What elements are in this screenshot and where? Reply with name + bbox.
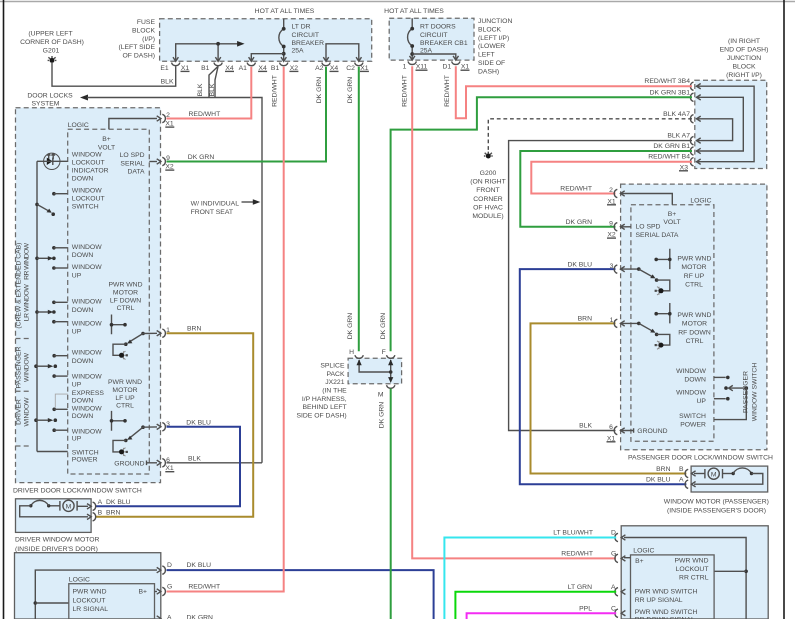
label PWR WND LOCKOUT RR CTRL bbox=[675, 558, 709, 582]
svg-text:A: A bbox=[679, 477, 684, 484]
svg-text:DK GRN: DK GRN bbox=[566, 219, 593, 226]
svg-text:JX221: JX221 bbox=[325, 379, 344, 386]
pin 1 (driver BRN) bbox=[157, 327, 170, 337]
svg-text:RED/WHT: RED/WHT bbox=[444, 75, 451, 107]
wire DK GRN fuse C2 to splice H bbox=[358, 67, 360, 351]
pin 9/X2 (passenger) bbox=[566, 219, 625, 239]
label WINDOW LOCKOUT SWITCH bbox=[72, 188, 105, 211]
svg-text:END OF DASH): END OF DASH) bbox=[720, 47, 769, 54]
motor LF UP pole and blade bbox=[124, 425, 157, 442]
wire BLK G201 to fuse E1 bbox=[52, 63, 176, 86]
pin C (bottom-right PPL) bbox=[579, 605, 625, 617]
svg-text:SIDE OF: SIDE OF bbox=[478, 60, 505, 67]
wire pin2 to B+ VOLT (passenger) bbox=[621, 194, 673, 205]
svg-text:WINDOW: WINDOW bbox=[24, 352, 31, 382]
driver door lock/window switch box bbox=[16, 108, 161, 483]
wire DK GRN B1 to passenger pin 9 bbox=[520, 151, 692, 227]
svg-text:UP: UP bbox=[72, 436, 82, 443]
label PWR WND MOTOR RF DOWN CTRL bbox=[677, 312, 711, 345]
svg-text:DOWN: DOWN bbox=[72, 176, 94, 183]
svg-text:POWER: POWER bbox=[72, 457, 98, 464]
svg-text:PASSENGER: PASSENGER bbox=[743, 371, 750, 413]
svg-text:RED/WHT: RED/WHT bbox=[402, 75, 409, 107]
wire RED/WHT D1/X1 to junction 3B4 bbox=[456, 66, 692, 118]
internal wire pin D to RR ctrl vertical bbox=[624, 538, 748, 619]
svg-text:INDICATOR: INDICATOR bbox=[72, 168, 109, 175]
passenger door lock/window switch box bbox=[621, 184, 767, 450]
svg-text:DK GRN: DK GRN bbox=[316, 77, 323, 104]
pin B1/X2 bbox=[271, 57, 298, 72]
pin G (bottom-right RED/WHT) bbox=[561, 551, 625, 563]
wire PPL pin C bbox=[467, 613, 617, 619]
svg-text:RED/WHT B4: RED/WHT B4 bbox=[648, 154, 690, 161]
svg-text:B1: B1 bbox=[271, 65, 280, 72]
svg-text:LR SIGNAL: LR SIGNAL bbox=[73, 606, 109, 613]
svg-text:I/P HARNESS,: I/P HARNESS, bbox=[302, 396, 347, 403]
wire BLK A7 to passenger pin 6 bbox=[509, 141, 692, 431]
svg-text:DOWN: DOWN bbox=[72, 398, 94, 405]
svg-text:RR UP SIGNAL: RR UP SIGNAL bbox=[635, 597, 683, 604]
svg-text:VOLT: VOLT bbox=[663, 219, 680, 226]
svg-text:MOTOR: MOTOR bbox=[112, 387, 137, 394]
svg-text:BLOCK: BLOCK bbox=[478, 26, 502, 33]
junction block internal U wire red bbox=[696, 86, 754, 162]
svg-text:LOGIC: LOGIC bbox=[690, 198, 711, 205]
divider dash 1 bbox=[16, 338, 32, 340]
wire switch power bbox=[37, 451, 68, 453]
switch group RR window: window up contact bbox=[52, 264, 102, 279]
svg-text:G: G bbox=[611, 551, 616, 558]
svg-text:DRIVER WINDOW MOTOR: DRIVER WINDOW MOTOR bbox=[15, 537, 100, 544]
pin B (driver motor) bbox=[87, 510, 120, 522]
svg-text:RF UP: RF UP bbox=[684, 273, 705, 280]
motor LF DOWN feed bracket + motor terminal bbox=[113, 344, 128, 359]
svg-text:FRONT: FRONT bbox=[476, 187, 499, 194]
pin 9/X2 (driver) bbox=[157, 155, 175, 170]
svg-text:6: 6 bbox=[609, 424, 613, 431]
wire B+ to pin G bbox=[624, 557, 631, 559]
label PWR WND MOTOR LF UP CTRL bbox=[108, 379, 142, 410]
wire LED to pole bbox=[37, 160, 44, 162]
label PWR WND SWITCH RR DOWN SIGNAL bbox=[635, 609, 698, 619]
svg-text:BRN: BRN bbox=[656, 466, 670, 473]
svg-text:A: A bbox=[611, 584, 616, 591]
pin F (splice) bbox=[382, 349, 395, 358]
ground wire + label GROUND (driver) bbox=[114, 460, 157, 467]
G201 ground bbox=[20, 31, 84, 63]
splice pack JX221 box bbox=[348, 358, 402, 384]
svg-text:(I/P): (I/P) bbox=[142, 36, 155, 43]
svg-text:(UPPER LEFT: (UPPER LEFT bbox=[28, 31, 72, 38]
motor RF UP pole and blade bbox=[621, 267, 659, 282]
right border bar bbox=[783, 0, 785, 619]
svg-text:(LEFT I/P): (LEFT I/P) bbox=[478, 35, 509, 42]
label FUSE BLOCK (I/P) (LEFT SIDE OF DASH) bbox=[118, 19, 155, 60]
svg-text:M: M bbox=[378, 391, 384, 398]
svg-text:DOOR LOCKS: DOOR LOCKS bbox=[27, 93, 73, 100]
wire DK GRN junction 3B1 to splice F bbox=[391, 97, 692, 351]
svg-text:W/ INDIVIDUAL: W/ INDIVIDUAL bbox=[191, 200, 240, 207]
pin B (passenger motor) bbox=[656, 466, 695, 478]
label PWR WND LOCKOUT LR SIGNAL bbox=[73, 589, 109, 614]
svg-text:DK BLU: DK BLU bbox=[646, 477, 671, 484]
wire switch pole vertical bbox=[36, 161, 38, 451]
svg-text:PASSENGER: PASSENGER bbox=[16, 346, 23, 388]
svg-text:LOCKOUT: LOCKOUT bbox=[676, 566, 709, 573]
bottom-left module box bbox=[15, 553, 161, 619]
wire motor A side bbox=[77, 505, 88, 507]
svg-text:SERIAL: SERIAL bbox=[120, 160, 144, 167]
pin D (bottom-right LT BLU/WHT) bbox=[553, 530, 625, 542]
svg-text:DOWN: DOWN bbox=[72, 252, 94, 259]
rotated label PASSENGER WINDOW SWITCH bbox=[743, 363, 759, 422]
svg-text:DRIVER DOOR LOCK/WINDOW SWITCH: DRIVER DOOR LOCK/WINDOW SWITCH bbox=[13, 488, 142, 495]
switch group RR window: blade bbox=[35, 256, 56, 260]
svg-text:WINDOW: WINDOW bbox=[24, 397, 31, 427]
svg-text:CTRL: CTRL bbox=[117, 305, 135, 312]
wire DK BLU driver pin3 to motor A bbox=[96, 427, 241, 507]
passenger window motor box bbox=[691, 466, 768, 492]
svg-text:G: G bbox=[167, 584, 172, 591]
svg-text:POWER: POWER bbox=[680, 421, 706, 428]
svg-text:WINDOW: WINDOW bbox=[72, 350, 102, 357]
svg-text:B: B bbox=[98, 510, 103, 517]
label WINDOW UP (passenger) bbox=[676, 390, 706, 405]
svg-text:B+: B+ bbox=[139, 589, 148, 596]
svg-text:DOWN: DOWN bbox=[72, 358, 94, 365]
svg-text:BLOCK: BLOCK bbox=[732, 64, 756, 71]
svg-text:DK BLU: DK BLU bbox=[106, 499, 131, 506]
svg-text:DK GRN 3B1: DK GRN 3B1 bbox=[650, 89, 691, 96]
switch group passenger: window down contact bbox=[52, 350, 102, 365]
logic box (bottom-left) bbox=[69, 584, 155, 619]
svg-text:RF DOWN: RF DOWN bbox=[678, 329, 711, 336]
svg-text:LOCKOUT: LOCKOUT bbox=[73, 598, 106, 605]
label (IN RIGHT END OF DASH) JUNCTION BLOCK (RIGHT I/P) bbox=[720, 38, 769, 79]
pin 3 (driver DK BLU) bbox=[157, 421, 170, 431]
svg-text:E1: E1 bbox=[160, 65, 169, 72]
wire B+ to pin G bbox=[155, 591, 158, 593]
svg-text:DOWN: DOWN bbox=[72, 413, 94, 420]
switch group driver: blade bbox=[34, 418, 57, 422]
svg-text:25A: 25A bbox=[292, 48, 305, 55]
motor LF DOWN contact cross bbox=[110, 315, 127, 335]
svg-text:B+: B+ bbox=[668, 211, 677, 218]
svg-text:WINDOW: WINDOW bbox=[72, 244, 102, 251]
pin G (bottom-left) bbox=[157, 584, 220, 596]
svg-text:B+: B+ bbox=[635, 558, 644, 565]
svg-text:(LEFT SIDE: (LEFT SIDE bbox=[118, 44, 155, 51]
svg-text:A1: A1 bbox=[239, 65, 248, 72]
svg-text:WINDOW: WINDOW bbox=[72, 373, 102, 380]
motor RF UP feed bracket + motor terminal bbox=[655, 280, 670, 295]
svg-text:MOTOR: MOTOR bbox=[113, 289, 138, 296]
passenger window switch pole with arrow bbox=[714, 385, 748, 419]
wires motor (passenger) bbox=[694, 468, 763, 484]
svg-text:RED/WHT: RED/WHT bbox=[561, 551, 593, 558]
svg-text:WINDOW MOTOR (PASSENGER): WINDOW MOTOR (PASSENGER) bbox=[664, 498, 769, 505]
svg-text:LEFT: LEFT bbox=[478, 52, 495, 59]
svg-text:BRN: BRN bbox=[578, 316, 592, 323]
svg-text:(LOWER: (LOWER bbox=[478, 43, 505, 50]
svg-text:RED/WHT: RED/WHT bbox=[188, 584, 220, 591]
internal wire to pin D bbox=[34, 570, 158, 619]
logic box (passenger) bbox=[631, 205, 714, 441]
fuse block I/P box bbox=[160, 19, 372, 62]
svg-text:BLK: BLK bbox=[161, 79, 174, 86]
svg-text:MOTOR: MOTOR bbox=[682, 321, 707, 328]
svg-text:CIRCUIT: CIRCUIT bbox=[420, 32, 448, 39]
svg-text:SWITCH: SWITCH bbox=[72, 204, 99, 211]
svg-text:BLK: BLK bbox=[197, 83, 204, 96]
svg-text:DK GRN: DK GRN bbox=[347, 77, 354, 104]
wire DK GRN fuse A2 to driver pin9 bbox=[167, 67, 327, 162]
motor RF DOWN contact cross bbox=[654, 303, 671, 323]
svg-text:DK GRN: DK GRN bbox=[380, 313, 387, 340]
svg-text:GROUND: GROUND bbox=[114, 460, 144, 467]
junction block right I/P box bbox=[695, 80, 767, 168]
RT doors circuit breaker box bbox=[389, 18, 474, 60]
svg-text:A: A bbox=[98, 499, 103, 506]
svg-text:DK GRN: DK GRN bbox=[379, 402, 386, 429]
wire door locks system feed + long ground vertical bbox=[80, 95, 262, 463]
svg-text:H: H bbox=[349, 349, 354, 356]
wire DK BLU passenger pin 3 to motor A bbox=[520, 269, 687, 484]
svg-text:1: 1 bbox=[403, 64, 407, 71]
svg-text:BLK: BLK bbox=[188, 455, 201, 462]
pin RED/WHT 3B4 bbox=[644, 78, 700, 90]
junction block internal U wire green bbox=[696, 97, 743, 151]
svg-text:RED/WHT: RED/WHT bbox=[189, 111, 221, 118]
svg-text:(RIGHT I/P): (RIGHT I/P) bbox=[726, 72, 762, 79]
motor LF UP contact cross bbox=[110, 411, 127, 431]
svg-text:CIRCUIT: CIRCUIT bbox=[292, 32, 320, 39]
svg-text:BREAKER CB1: BREAKER CB1 bbox=[420, 40, 468, 47]
label WINDOW DOWN (passenger) bbox=[676, 368, 706, 383]
wire BLK driver pin6 to long vertical bbox=[167, 462, 263, 464]
svg-text:BLK: BLK bbox=[209, 83, 216, 96]
svg-text:WINDOW: WINDOW bbox=[72, 188, 102, 195]
switch group driver: window up contact bbox=[52, 428, 102, 442]
svg-text:M: M bbox=[66, 504, 72, 511]
wire fuse internal left branch with arrow bbox=[176, 41, 245, 61]
pin A (driver motor) bbox=[87, 499, 131, 510]
pin A (bottom-left, clipped) bbox=[157, 615, 213, 619]
top border line bbox=[0, 1, 795, 3]
lockout switch contact bbox=[52, 192, 68, 196]
wire LT GRN pin A bbox=[455, 592, 616, 619]
svg-text:WINDOW: WINDOW bbox=[72, 299, 102, 306]
svg-text:SWITCH: SWITCH bbox=[679, 413, 706, 420]
wire BRN driver pin1 to motor B bbox=[96, 333, 254, 517]
svg-text:OF HVAC: OF HVAC bbox=[473, 204, 503, 211]
label PWR WND MOTOR LF DOWN CTRL bbox=[109, 282, 143, 313]
svg-text:SIDE OF DASH): SIDE OF DASH) bbox=[296, 412, 346, 419]
svg-text:WINDOW: WINDOW bbox=[676, 368, 706, 375]
svg-text:DK GRN: DK GRN bbox=[187, 615, 214, 619]
pin E1/X1 bbox=[160, 57, 189, 72]
pin A1/X4 bbox=[239, 57, 267, 72]
svg-text:B+: B+ bbox=[102, 136, 111, 143]
svg-text:SPLICE: SPLICE bbox=[320, 363, 345, 370]
svg-text:JUNCTION: JUNCTION bbox=[478, 18, 512, 25]
svg-text:PPL: PPL bbox=[579, 605, 592, 612]
svg-text:DK BLU: DK BLU bbox=[567, 261, 592, 268]
switch group LR/RR: window up contact bbox=[52, 320, 102, 335]
caption DRIVER WINDOW MOTOR (INSIDE DRIVER'S DOOR) bbox=[15, 537, 100, 554]
rotated label DRIVER WINDOW bbox=[16, 397, 31, 427]
LED lockout indicator bbox=[44, 153, 60, 169]
svg-text:BREAKER: BREAKER bbox=[292, 40, 325, 47]
svg-text:PWR WND SWITCH: PWR WND SWITCH bbox=[635, 609, 698, 616]
motor RF UP contact cross bbox=[654, 249, 671, 269]
svg-text:PWR WND: PWR WND bbox=[73, 589, 107, 596]
pin BLK 4A7 bbox=[663, 111, 701, 123]
divider dash 3 bbox=[16, 445, 32, 447]
pin DK GRN 3B1 bbox=[650, 89, 701, 101]
svg-text:RED/WHT: RED/WHT bbox=[560, 186, 592, 193]
wire DK GRN splice M to bottom edge bbox=[390, 389, 392, 619]
svg-text:CTRL: CTRL bbox=[116, 403, 134, 410]
svg-text:FUSE: FUSE bbox=[137, 19, 156, 26]
svg-text:CTRL: CTRL bbox=[686, 338, 704, 345]
svg-text:UP: UP bbox=[72, 382, 82, 389]
svg-text:EXPRESS: EXPRESS bbox=[72, 390, 105, 397]
wire LED through to logic box bbox=[44, 160, 68, 162]
svg-text:LR WINDOW: LR WINDOW bbox=[24, 284, 31, 322]
svg-text:LOGIC: LOGIC bbox=[69, 577, 90, 584]
pin 6/X1 (passenger BLK) + GROUND bbox=[579, 423, 667, 443]
divider dash 2 bbox=[16, 390, 32, 392]
svg-text:JUNCTION: JUNCTION bbox=[727, 55, 761, 62]
svg-text:PASSENGER DOOR LOCK/WINDOW SWI: PASSENGER DOOR LOCK/WINDOW SWITCH bbox=[628, 454, 773, 461]
motor RF DOWN feed bracket + motor terminal bbox=[655, 334, 670, 349]
svg-text:9: 9 bbox=[609, 220, 613, 227]
rotated label PASSENGER WINDOW bbox=[16, 346, 31, 388]
bottom-right module box bbox=[621, 526, 768, 619]
svg-text:UP: UP bbox=[696, 398, 706, 405]
wire LT BLU/WHT pin D bbox=[444, 538, 616, 619]
svg-text:(IN THE: (IN THE bbox=[322, 388, 347, 395]
pin A (passenger motor) bbox=[646, 477, 696, 489]
svg-text:LT BLU/WHT: LT BLU/WHT bbox=[553, 530, 593, 537]
svg-text:D1: D1 bbox=[442, 64, 451, 71]
label LO SPD SERIAL DATA (driver) bbox=[120, 152, 145, 175]
pin 6/X1 (driver BLK) bbox=[157, 457, 175, 472]
svg-text:A: A bbox=[167, 615, 172, 619]
junction block internal U wire black bbox=[696, 119, 733, 141]
svg-text:RED/WHT: RED/WHT bbox=[272, 75, 279, 107]
motor M (driver) bbox=[60, 500, 77, 511]
svg-text:BLK 4A7: BLK 4A7 bbox=[663, 111, 690, 118]
caption WINDOW MOTOR (PASSENGER) (INSIDE PASSENGER'S DOOR) bbox=[664, 498, 769, 514]
wire RED/WHT fuse B1/X2 to pin G bbox=[167, 67, 284, 592]
svg-text:MOTOR: MOTOR bbox=[681, 264, 706, 271]
svg-text:WINDOW: WINDOW bbox=[72, 428, 102, 435]
svg-text:CORNER OF DASH): CORNER OF DASH) bbox=[20, 39, 84, 46]
svg-text:DK BLU: DK BLU bbox=[187, 562, 212, 569]
svg-text:BLK A7: BLK A7 bbox=[667, 133, 690, 140]
label SPLICE PACK JX221 (IN THE I/P HARNESS, BEHIND LEFT SIDE OF DASH) bbox=[296, 363, 347, 420]
pin 2/X1 (passenger) bbox=[560, 186, 624, 206]
wire RED/WHT B4 to passenger pin 2 bbox=[531, 162, 692, 194]
wire pin9 to logic (passenger) bbox=[621, 226, 631, 228]
pin RED/WHT B4 / X3 bbox=[648, 154, 700, 172]
svg-text:G200: G200 bbox=[480, 170, 497, 177]
svg-text:LO SPD: LO SPD bbox=[636, 224, 661, 231]
svg-text:RT DOORS: RT DOORS bbox=[420, 24, 456, 31]
svg-text:UP: UP bbox=[72, 272, 82, 279]
label W/ INDIVIDUAL FRONT SEAT + arrow bbox=[191, 199, 261, 216]
svg-text:WINDOW: WINDOW bbox=[72, 264, 102, 271]
svg-text:LT DR: LT DR bbox=[292, 24, 311, 31]
wire BLK 4A7 dashed to G200 bbox=[488, 119, 692, 153]
svg-text:LOGIC: LOGIC bbox=[633, 548, 654, 555]
G200 ground bbox=[470, 152, 506, 220]
wire fuse internal A1 branch bbox=[251, 54, 283, 62]
lockout switch blade bbox=[35, 203, 55, 216]
svg-text:BLK: BLK bbox=[579, 423, 592, 430]
pin DK GRN B1 bbox=[653, 143, 700, 155]
svg-text:PWR WND: PWR WND bbox=[109, 282, 143, 289]
svg-text:VOLT: VOLT bbox=[98, 145, 115, 152]
pin 1 (passenger BRN) bbox=[578, 316, 625, 328]
svg-text:(CREW & EXTENDED CAB): (CREW & EXTENDED CAB) bbox=[16, 243, 23, 329]
svg-text:A2: A2 bbox=[315, 65, 324, 72]
svg-text:DK GRN B1: DK GRN B1 bbox=[653, 143, 690, 150]
label JUNCTION BLOCK (LEFT I/P) (LOWER LEFT SIDE OF DASH) bbox=[478, 18, 512, 75]
svg-text:LOCKOUT: LOCKOUT bbox=[72, 196, 105, 203]
svg-text:HOT AT ALL TIMES: HOT AT ALL TIMES bbox=[255, 8, 315, 15]
svg-text:DK GRN: DK GRN bbox=[188, 154, 215, 161]
motor RF DOWN pole and blade bbox=[621, 322, 659, 337]
label LO SPD SERIAL DATA (passenger) bbox=[636, 224, 679, 239]
svg-text:RED/WHT 3B4: RED/WHT 3B4 bbox=[644, 78, 690, 85]
svg-text:PACK: PACK bbox=[326, 371, 344, 378]
wire pin9 LO SPD bbox=[149, 161, 157, 163]
wire RED/WHT 1/X11 down to bottom-right pin G bbox=[412, 66, 616, 558]
svg-text:LT GRN: LT GRN bbox=[568, 584, 592, 591]
svg-text:FRONT SEAT: FRONT SEAT bbox=[191, 209, 233, 216]
switch group passenger: blade bbox=[34, 364, 57, 368]
svg-text:B: B bbox=[679, 466, 684, 473]
svg-text:LOCKOUT: LOCKOUT bbox=[72, 160, 105, 167]
svg-text:PWR WND SWITCH: PWR WND SWITCH bbox=[635, 588, 698, 595]
svg-text:MODULE): MODULE) bbox=[472, 213, 503, 220]
label PWR WND SWITCH RR UP SIGNAL bbox=[635, 588, 698, 604]
svg-text:SERIAL DATA: SERIAL DATA bbox=[636, 232, 679, 239]
svg-text:1: 1 bbox=[610, 317, 614, 324]
driver window motor box bbox=[16, 499, 92, 533]
svg-text:DK GRN: DK GRN bbox=[347, 313, 354, 340]
wire BRN passenger pin 1 to motor B bbox=[531, 323, 687, 473]
svg-text:LF DOWN: LF DOWN bbox=[110, 297, 141, 304]
svg-text:DRIVER: DRIVER bbox=[16, 399, 23, 425]
passenger window switch contacts bbox=[714, 376, 730, 380]
svg-text:D: D bbox=[611, 530, 616, 537]
svg-text:WINDOW: WINDOW bbox=[72, 320, 102, 327]
pin H (splice) bbox=[349, 349, 363, 358]
pin M (splice) bbox=[378, 385, 395, 398]
wire pin2 to B+ VOLT bbox=[109, 119, 157, 130]
svg-text:RR CTRL: RR CTRL bbox=[679, 575, 709, 582]
switch group RR window: window down contact bbox=[52, 244, 102, 259]
svg-text:BRN: BRN bbox=[187, 326, 201, 333]
svg-text:M: M bbox=[711, 471, 717, 478]
wire breaker to D1 bbox=[412, 54, 456, 60]
svg-text:OF DASH): OF DASH) bbox=[123, 53, 155, 60]
pin B1/X4 bbox=[201, 57, 234, 72]
